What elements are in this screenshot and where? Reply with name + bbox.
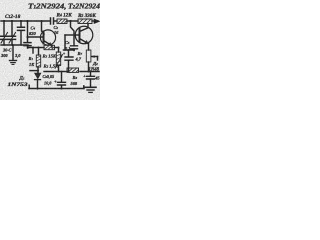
- label C5 0,1: [65, 40, 70, 51]
- capacitor C8 electrolytic right: [90, 72, 92, 76]
- capacitor C1a variable: [3, 21, 5, 35]
- wire emitter row: [28, 47, 44, 49]
- wire T2 base: [65, 34, 79, 36]
- label R2 1.5K: [44, 64, 60, 69]
- label D2 1N48: [89, 61, 100, 73]
- label C4 820: [29, 26, 37, 36]
- capacitor C5: [71, 21, 75, 45]
- transistor T2: [75, 26, 93, 44]
- wire cap common bottom: [1, 44, 28, 46]
- capacitor C2 inline on bus: [51, 18, 54, 24]
- wire T1 base: [28, 36, 44, 38]
- capacitor C3: [20, 21, 22, 27]
- label C7 0,05 10,0: [43, 74, 55, 86]
- resistor R3: [44, 45, 55, 49]
- resistor R1: [38, 48, 40, 56]
- diode D1: [37, 70, 39, 72]
- label R6 560: [71, 75, 78, 86]
- capacitor C6 plus sign: [63, 51, 66, 56]
- wire top bus: [1, 20, 50, 22]
- label R1 1K: [29, 56, 36, 67]
- transistor T1: [40, 30, 55, 45]
- wire bottom left rail: [29, 88, 84, 90]
- label D1 1N753: [8, 77, 29, 88]
- resistor R2 trimmer: [58, 48, 60, 53]
- resistor R5: [78, 19, 92, 24]
- capacitor C7 bottom mid electrolytic: [61, 72, 63, 82]
- wire stub node A: [32, 48, 34, 54]
- label R4 12K: [57, 13, 73, 19]
- capacitor C4: [27, 21, 29, 37]
- label R3 15K: [43, 54, 57, 59]
- wire output row: [44, 71, 68, 73]
- label R7 4,7: [75, 51, 83, 62]
- label C2 16: [54, 25, 60, 35]
- resistor R6: [67, 68, 79, 72]
- capacitor C1b variable: [11, 21, 13, 35]
- label 300 3,0: [0, 48, 21, 59]
- capacitor C6 electrolytic: [65, 57, 73, 60]
- label C1 2-18: [5, 14, 21, 20]
- ground right: [85, 86, 96, 88]
- node dots on bus: [3, 20, 72, 22]
- label T1 T2 2N2924: [28, 1, 100, 10]
- ground left: [12, 45, 14, 60]
- resistor R4: [57, 19, 67, 24]
- potentiometer R7: [86, 50, 91, 62]
- label R5 330K: [78, 13, 96, 19]
